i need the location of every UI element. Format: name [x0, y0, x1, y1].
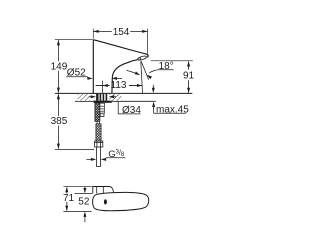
dimension 91 line — [188, 62, 190, 70]
dimension 149 line — [57, 40, 59, 61]
svg-text:71: 71 — [63, 193, 75, 204]
G3/8 tube — [97, 147, 101, 167]
braided hose — [96, 124, 101, 141]
label 18 degrees underline — [157, 69, 174, 71]
extension line 149 top — [55, 39, 93, 41]
countertop hatch left — [78, 94, 90, 101]
svg-text:G3/8: G3/8 — [108, 148, 125, 160]
dimension 52 top arrow — [84, 186, 86, 188]
top view body outline — [93, 192, 149, 210]
top view aerator block — [93, 187, 114, 194]
sensor dot — [104, 199, 107, 204]
svg-text:154: 154 — [113, 27, 130, 38]
18 degree arc left with arrow — [127, 70, 138, 74]
stream reference line A — [141, 61, 143, 93]
svg-text:113: 113 — [111, 80, 127, 91]
extension line 154 left — [92, 29, 94, 39]
dimension 52 bottom arrow — [84, 217, 86, 223]
aerator outer ellipse — [137, 55, 147, 61]
extension line body top — [75, 192, 93, 194]
extension line 154 right — [147, 29, 149, 57]
hex fitting — [95, 141, 103, 147]
svg-text:max.45: max.45 — [156, 104, 189, 115]
countertop top line — [55, 92, 192, 94]
aerator block divider 1 — [96, 187, 98, 194]
dimension 91 top extension — [151, 60, 193, 62]
label max.45 leader top arrow — [152, 85, 154, 88]
neck between rod and hose — [97, 121, 99, 123]
shank through hole — [96, 94, 107, 101]
dimension 385 line — [57, 94, 59, 116]
svg-text:52: 52 — [78, 197, 90, 208]
svg-text:91: 91 — [183, 71, 195, 82]
svg-text:18°: 18° — [159, 61, 174, 72]
dimension Ø52 right arrow — [112, 77, 117, 80]
extension line hose end — [55, 148, 94, 150]
svg-text:385: 385 — [51, 116, 68, 127]
dimension 113 line — [96, 85, 110, 87]
label Ø34 leader — [118, 101, 140, 114]
threaded rod — [95, 103, 100, 122]
aerator inner ellipse — [138, 57, 141, 60]
18 degree arc right with arrow — [149, 70, 156, 73]
countertop hatch right — [109, 94, 121, 101]
svg-text:Ø52: Ø52 — [67, 67, 86, 78]
label Ø52 underline leader — [66, 77, 88, 79]
extension line body bottom — [63, 210, 91, 212]
extension line top (aerator) — [63, 186, 92, 188]
dimension 154 line — [93, 30, 112, 32]
countertop underside line — [75, 100, 156, 102]
label max.45 leader bottom arrow — [153, 106, 155, 113]
aerator block divider 2 — [102, 187, 104, 193]
svg-text:149: 149 — [51, 62, 68, 73]
dimension G3/8 arrows — [86, 158, 91, 160]
washer under counter — [94, 101, 112, 103]
tilted outlet line B — [141, 61, 149, 79]
spout underside — [112, 60, 137, 94]
label max.45 underline — [154, 112, 186, 114]
dimension Ø34 arrows — [89, 96, 91, 98]
dimension 71 line — [66, 187, 68, 193]
side block (hose connection stack) — [100, 103, 105, 116]
svg-text:Ø34: Ø34 — [122, 105, 141, 116]
faucet centerline tick — [101, 81, 103, 94]
faucet body outline — [93, 40, 148, 94]
